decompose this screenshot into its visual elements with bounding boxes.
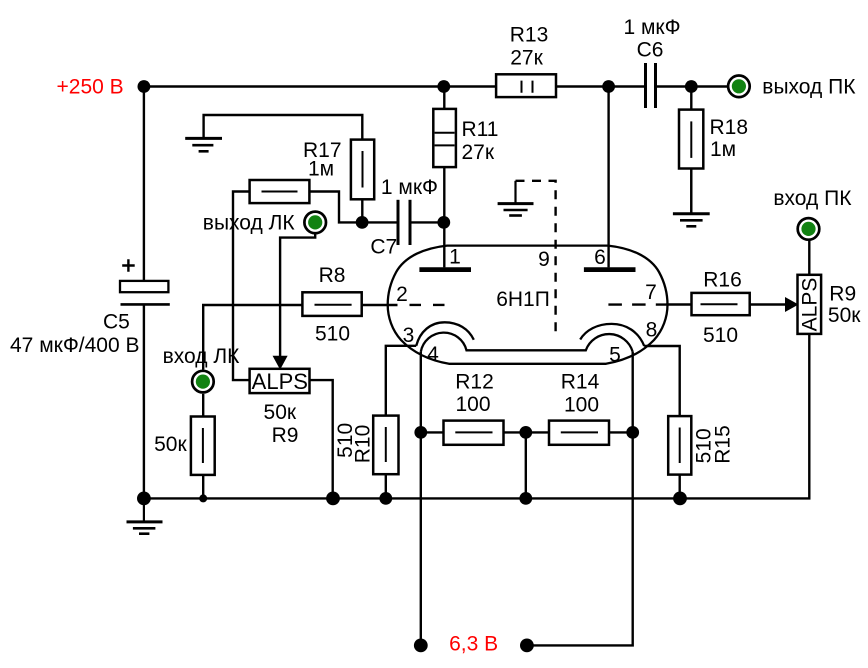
wire feedback resistor right to C7 node xyxy=(309,192,396,223)
wire +250V down to C5 xyxy=(143,87,145,282)
svg-text:R16: R16 xyxy=(703,269,742,292)
wire R17 top to ground xyxy=(204,115,363,140)
wire C5 bottom to ground rail xyxy=(143,305,145,499)
svg-text:50к: 50к xyxy=(154,433,187,456)
wire R18 top xyxy=(690,87,692,110)
wire R8 left to вход ЛК xyxy=(203,305,302,370)
junction R12-R14 node xyxy=(519,426,532,439)
svg-text:6,3 В: 6,3 В xyxy=(449,633,498,656)
svg-text:R18: R18 xyxy=(710,116,749,139)
capacitor C6 xyxy=(646,63,656,108)
resistor R16 xyxy=(692,293,750,315)
svg-text:R11: R11 xyxy=(462,118,499,141)
svg-text:6Н1П: 6Н1П xyxy=(496,288,550,311)
wire C6 to terminal xyxy=(657,85,728,87)
junction ground rail / C5 xyxy=(137,492,151,506)
svg-text:C7: C7 xyxy=(370,235,397,258)
svg-text:1м: 1м xyxy=(308,158,334,181)
wire R15 bottom xyxy=(679,475,681,499)
svg-text:вход ПК: вход ПК xyxy=(773,187,852,210)
junction +250V node xyxy=(138,80,151,93)
svg-text:1м: 1м xyxy=(710,138,736,161)
resistor R11 xyxy=(433,109,456,167)
resistor R17 xyxy=(351,140,374,200)
wire grid pin7 dashed xyxy=(608,303,666,305)
wire вход ЛК to 50к resistor xyxy=(202,394,204,417)
wire R16 right to ALPS R9 arrow xyxy=(750,303,787,305)
cathode right (pin 8) xyxy=(580,324,644,346)
wire grid pin7 solid to R16 xyxy=(666,303,692,305)
wire shield pin9 dashed xyxy=(516,181,556,335)
resistor R8 xyxy=(302,292,361,316)
capacitor C7 xyxy=(398,200,410,245)
svg-text:ALPS: ALPS xyxy=(799,278,822,332)
wire R11 bottom to anode pin1 xyxy=(443,167,445,267)
wire ALPS right to rail xyxy=(310,380,333,498)
ground bottom-left main xyxy=(127,498,163,533)
wire heater pin4 down to 6.3V xyxy=(420,352,422,646)
capacitor C5 xyxy=(120,259,170,304)
terminal 6,3V right xyxy=(520,639,534,653)
junction ground rail / R15 xyxy=(673,492,687,506)
svg-text:7: 7 xyxy=(645,281,657,304)
svg-text:C6: C6 xyxy=(637,39,664,62)
svg-text:1: 1 xyxy=(449,246,461,269)
svg-text:6: 6 xyxy=(594,246,606,269)
wire R12-R14 node to rail xyxy=(525,432,527,498)
svg-text:вход ЛК: вход ЛК xyxy=(163,345,241,368)
terminal выход ПК xyxy=(728,76,750,98)
potentiometer ALPS R9 right xyxy=(786,275,822,334)
wire grid pin2 dashed xyxy=(410,304,446,306)
cathode left (pin 3) xyxy=(416,322,474,346)
junction R12 left / pin4 wire xyxy=(414,426,427,439)
resistor feedback (unlabeled) xyxy=(250,180,310,203)
ground under R18 xyxy=(673,169,710,227)
resistor R15 xyxy=(668,416,691,475)
svg-text:выход ПК: выход ПК xyxy=(762,75,856,98)
wire heater pin5 down to 6.3V xyxy=(527,352,633,646)
svg-text:R14: R14 xyxy=(561,370,600,393)
svg-text:50к: 50к xyxy=(264,401,297,424)
junction R11 top / rail xyxy=(437,80,450,93)
wire anode pin6 up to rail xyxy=(607,87,609,268)
svg-text:9: 9 xyxy=(538,248,550,271)
svg-text:4: 4 xyxy=(427,343,439,366)
wire R11 top xyxy=(443,87,445,109)
terminal 6,3V left xyxy=(414,639,428,653)
svg-text:C5: C5 xyxy=(103,310,130,333)
svg-text:R8: R8 xyxy=(319,264,346,287)
svg-text:R15: R15 xyxy=(712,425,735,464)
anode plate right (pin 6) xyxy=(584,267,636,272)
svg-text:+250 В: +250 В xyxy=(57,76,124,99)
svg-text:47 мкФ/400 В: 47 мкФ/400 В xyxy=(10,334,140,357)
resistor R14 xyxy=(549,421,609,445)
wire feedback resistor left to ALPS xyxy=(233,192,250,381)
ground shield pin9 xyxy=(498,181,534,216)
wire 50к bottom to rail xyxy=(202,475,204,499)
terminal выход ЛК xyxy=(304,212,326,234)
svg-text:100: 100 xyxy=(564,394,599,417)
wire cathode pin3 to R10 xyxy=(386,346,416,416)
junction ground rail / 50к xyxy=(199,494,207,502)
anode plate left (pin 1) xyxy=(419,267,471,272)
wire R13 to C6 xyxy=(556,85,644,87)
svg-text:3: 3 xyxy=(403,324,415,347)
svg-text:100: 100 xyxy=(455,393,490,416)
wire C7 right to anode node xyxy=(411,221,444,223)
wire R10 bottom xyxy=(385,474,387,498)
svg-text:510: 510 xyxy=(315,323,350,346)
svg-text:1 мкФ: 1 мкФ xyxy=(623,16,680,39)
wire вход ПК to ALPS R9 top xyxy=(808,241,810,275)
svg-text:8: 8 xyxy=(646,319,658,342)
svg-text:ALPS: ALPS xyxy=(252,369,308,394)
heater with bumps (pins 4,5) xyxy=(421,333,633,352)
resistor R18 xyxy=(679,110,703,169)
wire R12 right to R14 xyxy=(504,431,549,433)
svg-text:5: 5 xyxy=(609,344,621,367)
svg-text:R13: R13 xyxy=(510,24,549,47)
ground top-left xyxy=(185,138,222,151)
wire cathode pin8 to R15 xyxy=(644,346,680,416)
potentiometer ALPS R9 left xyxy=(250,356,310,394)
svg-text:R10: R10 xyxy=(351,425,374,464)
svg-text:2: 2 xyxy=(396,283,408,306)
wire выход ЛК terminal to ALPS wiper xyxy=(280,234,315,357)
svg-text:510: 510 xyxy=(703,324,738,347)
svg-text:1 мкФ: 1 мкФ xyxy=(381,176,438,199)
resistor R13 xyxy=(496,74,556,97)
junction C7 right / R11 / anode xyxy=(437,216,450,229)
svg-text:27к: 27к xyxy=(462,141,495,164)
wire ground rail xyxy=(144,334,809,498)
svg-text:50к: 50к xyxy=(828,304,861,327)
junction ground rail / R12-R14 xyxy=(519,492,532,505)
svg-text:R9: R9 xyxy=(272,424,299,447)
junction C7 left / R17 xyxy=(356,216,369,229)
svg-text:R9: R9 xyxy=(829,283,856,306)
wire R17 bottom xyxy=(361,199,363,222)
junction ground rail / ALPS left xyxy=(326,492,340,506)
resistor 50к grid leak xyxy=(191,417,215,475)
wire grid pin2 solid from R8 xyxy=(362,304,398,306)
junction C6 right / R18 xyxy=(685,80,698,93)
wire R12 left xyxy=(421,431,444,433)
junction ground rail / R10 xyxy=(379,492,392,505)
wire R18 bottom to ground xyxy=(690,169,692,214)
resistor R12 xyxy=(444,421,504,445)
svg-text:27к: 27к xyxy=(510,46,543,69)
svg-text:выход ЛК: выход ЛК xyxy=(203,212,296,235)
tube 6Н1П envelope xyxy=(388,246,668,364)
wire top rail left xyxy=(144,85,496,87)
junction R13 right / pin6 xyxy=(602,80,615,93)
terminal вход ПК xyxy=(798,218,820,240)
junction R14 right / pin5 wire xyxy=(626,426,639,439)
terminal вход ЛК xyxy=(192,371,214,393)
svg-text:R12: R12 xyxy=(455,370,494,393)
wire R14 right xyxy=(609,431,633,433)
resistor R10 xyxy=(373,416,398,475)
